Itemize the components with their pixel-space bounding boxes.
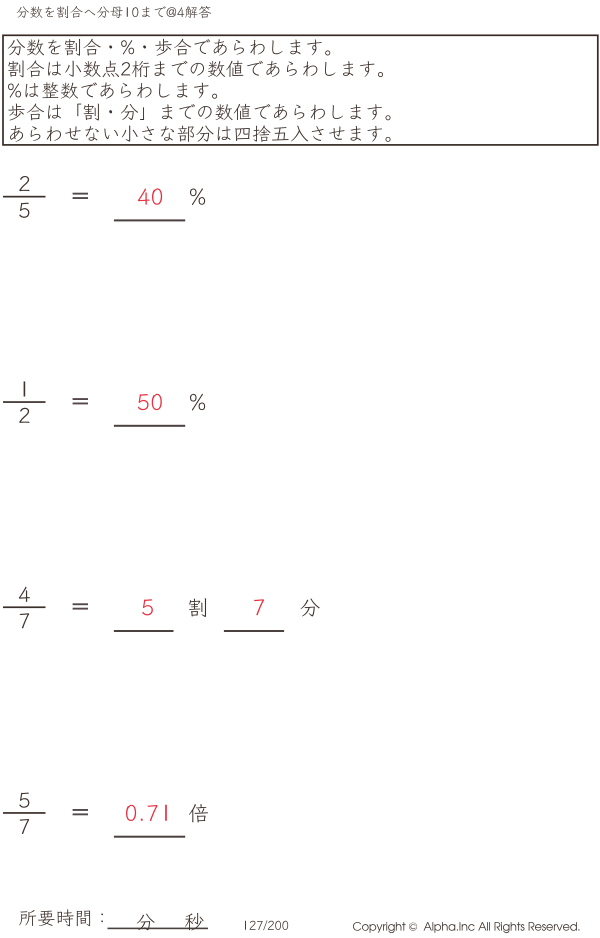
box line 3 bbox=[8, 82, 217, 99]
P4 fraction bar bbox=[3, 812, 46, 814]
instruction box border bbox=[3, 35, 598, 145]
P3 unit 分 bbox=[301, 599, 320, 617]
P4 answer 0.71 bbox=[126, 805, 167, 821]
P3 fraction bar bbox=[3, 606, 46, 608]
P2 numerator 1 bbox=[24, 381, 26, 396]
P1 fraction bar bbox=[3, 196, 46, 198]
P4 unit 倍 bbox=[189, 804, 208, 822]
P3 equals sign bbox=[73, 603, 88, 605]
box line 2 bbox=[8, 60, 383, 77]
P4 equals sign bbox=[73, 809, 88, 811]
P1 percent sign bbox=[190, 188, 205, 205]
box line 1 bbox=[8, 39, 330, 56]
P2 percent sign bbox=[190, 394, 205, 411]
P1 numerator 2 bbox=[19, 176, 29, 191]
P1 answer underline bbox=[114, 219, 185, 221]
P3 denominator 7 bbox=[20, 613, 30, 628]
box line 5 bbox=[10, 125, 391, 142]
P1 equals sign bbox=[73, 193, 88, 195]
P2 answer underline bbox=[114, 425, 185, 427]
footer 分 bbox=[137, 914, 155, 931]
P1 denominator 5 bbox=[19, 203, 29, 218]
P2 answer 50 bbox=[138, 394, 162, 410]
P4 numerator 5 bbox=[19, 793, 29, 808]
footer underline bbox=[108, 928, 209, 930]
footer label 所要時間： bbox=[19, 909, 103, 926]
P3 answer 7 bbox=[254, 599, 264, 615]
P2 fraction bar bbox=[3, 401, 46, 403]
header title bbox=[17, 6, 212, 18]
P3 underline 1 bbox=[114, 630, 174, 632]
P4 answer underline bbox=[114, 836, 185, 838]
copyright bbox=[353, 922, 579, 933]
P2 denominator 2 bbox=[19, 408, 29, 423]
P3 numerator 4 bbox=[19, 587, 30, 602]
footer 秒 bbox=[185, 913, 204, 930]
P3 unit 割 bbox=[189, 598, 206, 617]
P4 denominator 7 bbox=[20, 819, 30, 834]
P1 answer 40 bbox=[138, 188, 162, 204]
P3 answer 5 bbox=[142, 599, 153, 615]
box line 4 bbox=[8, 104, 390, 121]
P3 underline 2 bbox=[224, 630, 284, 632]
P2 equals sign bbox=[73, 398, 88, 400]
page number 127/200 bbox=[245, 920, 288, 930]
